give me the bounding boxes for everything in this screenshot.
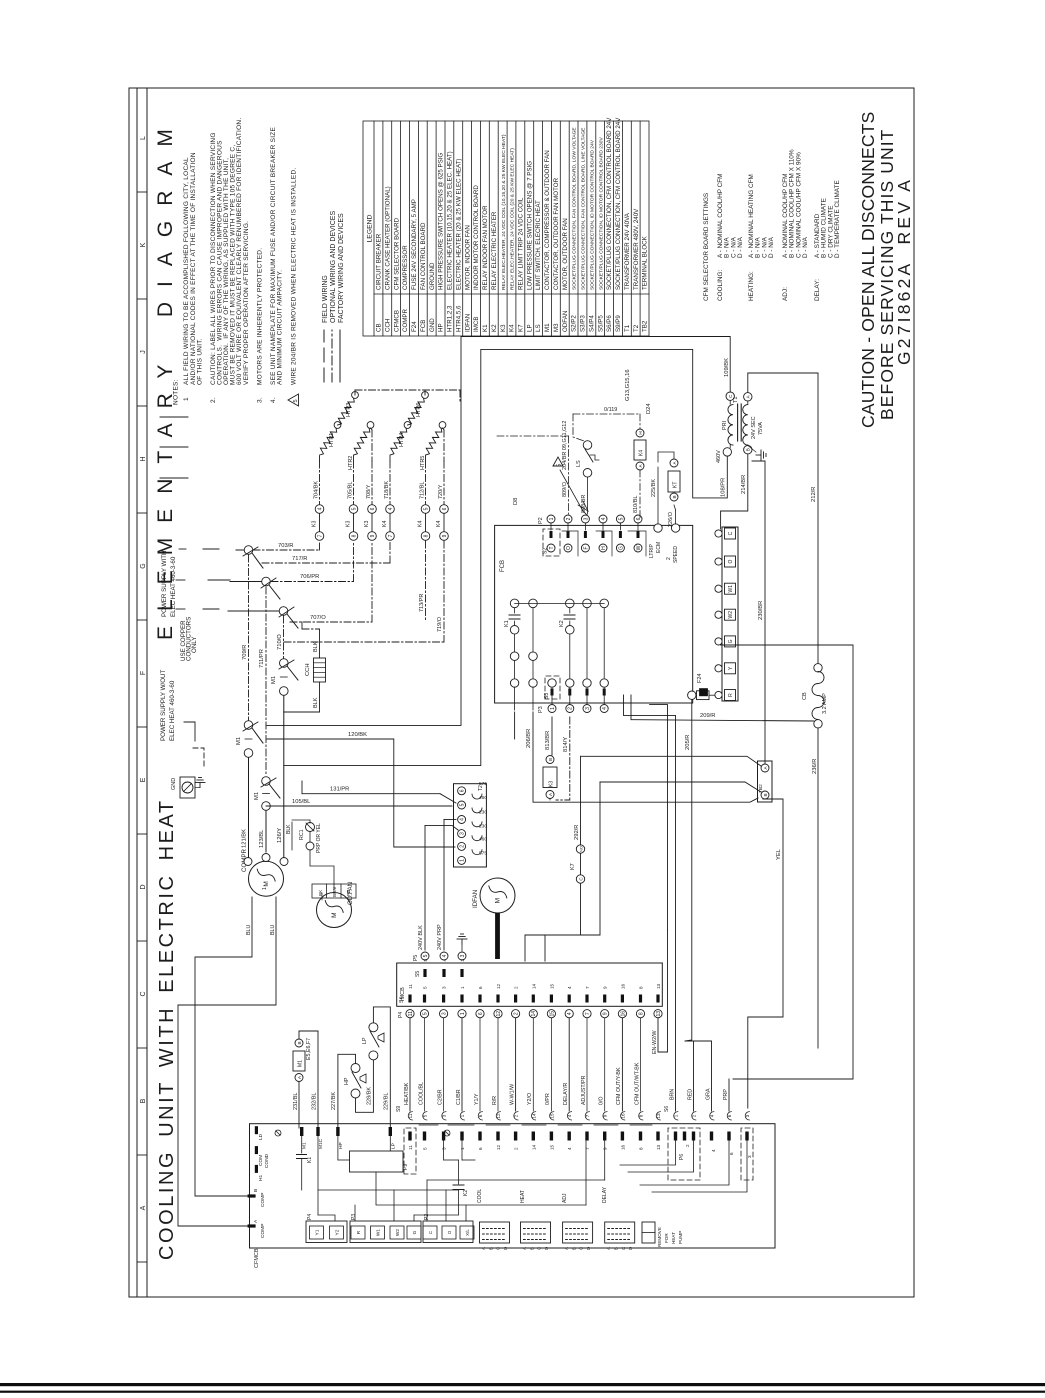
relay contact K4 pins 6/9: [440, 505, 449, 514]
svg-text:6: 6: [478, 1012, 484, 1015]
svg-text:RC1: RC1: [299, 829, 305, 840]
svg-text:SOCKET/PLUG CONNECTION, FAN CO: SOCKET/PLUG CONNECTION, FAN CONTROL BOAR…: [581, 127, 587, 290]
svg-text:K3: K3: [549, 781, 555, 787]
svg-text:CFM SELECTOR BOARD SETTINGS: CFM SELECTOR BOARD SETTINGS: [703, 193, 710, 301]
svg-text:F24: F24: [411, 321, 418, 332]
svg-text:D8: D8: [513, 498, 519, 505]
svg-text:228/BK: 228/BK: [367, 1087, 373, 1105]
svg-text:COMPRESSOR: COMPRESSOR: [402, 245, 409, 290]
svg-text:S5: S5: [415, 971, 421, 977]
page footer rules: [0, 1383, 1045, 1393]
svg-text:B: B: [614, 1247, 619, 1250]
svg-text:9: 9: [603, 1147, 608, 1150]
svg-text:4: 4: [442, 959, 447, 962]
crank case heater CCH: [301, 622, 303, 629]
svg-text:SOCKET/PLUG CONNECTION, FAN CO: SOCKET/PLUG CONNECTION, FAN CONTROL BOAR…: [572, 127, 578, 290]
heater branch tie wires: [319, 456, 321, 461]
svg-text:292/R: 292/R: [574, 825, 580, 840]
svg-text:T2: T2: [633, 324, 640, 332]
svg-text:CRANK CASE HEATER (OPTIONAL): CRANK CASE HEATER (OPTIONAL): [384, 186, 391, 290]
svg-text:4: 4: [317, 507, 323, 510]
svg-text:K4: K4: [436, 521, 442, 527]
svg-text:K3: K3: [364, 521, 370, 527]
svg-text:MOTORS ARE INHERENTLY PROTECTE: MOTORS ARE INHERENTLY PROTECTED.: [256, 248, 263, 385]
wire 703/R: [253, 549, 320, 551]
svg-text:204/BR 09,G11,G12: 204/BR 09,G11,G12: [562, 421, 568, 470]
bracket lines S9 row: [419, 1124, 438, 1126]
wire 229/BL: [373, 1007, 390, 1128]
svg-text:710/O: 710/O: [277, 634, 283, 650]
ground at P5 pin 3: [461, 944, 463, 951]
svg-text:K1: K1: [482, 324, 489, 332]
svg-text:460V: 460V: [716, 450, 722, 463]
CFMCB internal wiring: [318, 1189, 458, 1191]
svg-text:4: 4: [442, 954, 448, 957]
svg-text:L: L: [140, 136, 147, 140]
svg-text:Y1: Y1: [315, 1229, 321, 1235]
svg-text:15: 15: [549, 1011, 555, 1017]
terminal O: [725, 556, 736, 567]
svg-text:CCH: CCH: [384, 319, 391, 332]
svg-text:HEAT: HEAT: [671, 1232, 676, 1244]
svg-text:236/R: 236/R: [812, 759, 818, 774]
svg-text:COOL: COOL: [477, 1189, 483, 1203]
legend table: [363, 121, 649, 336]
svg-text:4: 4: [460, 818, 466, 821]
svg-text:Y2: Y2: [335, 1229, 341, 1235]
svg-text:8: 8: [639, 986, 644, 989]
svg-text:R/R: R/R: [492, 1096, 498, 1105]
terminal group P3 (R W1 W2 G): [350, 1221, 421, 1243]
svg-text:CFMCB: CFMCB: [393, 310, 400, 332]
svg-text:P6: P6: [679, 1154, 685, 1160]
wire RED: [693, 1041, 695, 1111]
svg-text:AND MINIMUM CIRCUIT AMPACITY.: AND MINIMUM CIRCUIT AMPACITY.: [277, 270, 284, 385]
svg-text:9: 9: [370, 534, 376, 537]
svg-text:1: 1: [460, 986, 465, 989]
motor IDFAN: [480, 878, 515, 913]
svg-text:TB2: TB2: [642, 320, 649, 332]
svg-text:1: 1: [460, 859, 466, 862]
svg-text:Y2/O: Y2/O: [527, 1093, 533, 1105]
relay contact K3 pins 5/8: [349, 505, 358, 514]
wire 105/BL: [266, 805, 452, 807]
svg-text:4: 4: [711, 1149, 716, 1152]
relay contact K1: [510, 599, 519, 608]
svg-text:ADJ: ADJ: [562, 1193, 568, 1203]
svg-text:YEL: YEL: [776, 848, 782, 860]
svg-text:S9/P9: S9/P9: [615, 315, 622, 332]
svg-text:A: A: [522, 1247, 527, 1250]
terminal 460V: [723, 448, 731, 456]
FCB fan control board: [495, 525, 693, 703]
svg-text:6: 6: [636, 517, 642, 520]
svg-text:J: J: [140, 350, 147, 354]
svg-text:IMCB: IMCB: [473, 317, 480, 332]
svg-text:K1: K1: [504, 620, 510, 627]
svg-text:206/BR: 206/BR: [526, 729, 532, 748]
svg-text:121/BK: 121/BK: [242, 829, 248, 848]
svg-text:GROUND: GROUND: [429, 262, 436, 290]
svg-text:P5: P5: [413, 955, 419, 961]
svg-text:131/PR: 131/PR: [330, 787, 349, 793]
svg-text:SOCKET/PLUG CONNECTION, CFM CO: SOCKET/PLUG CONNECTION, CFM CONTROL BOAR…: [606, 117, 613, 290]
svg-text:HEATING:: HEATING:: [748, 271, 755, 301]
disconnect switch pole 2: [262, 577, 271, 586]
CFM selector board settings text: [703, 149, 841, 301]
svg-text:K4: K4: [509, 324, 516, 332]
wire 720/Y: [443, 461, 445, 504]
svg-text:M1: M1: [236, 737, 242, 745]
contactor M1 contact A: [244, 721, 253, 730]
relay contact K7: [576, 845, 584, 853]
wire 209/R: [631, 695, 814, 721]
terminal G: [725, 636, 736, 647]
svg-text:ADJ:: ADJ:: [782, 287, 789, 301]
svg-text:F: F: [140, 671, 147, 675]
wire 205/R: [685, 700, 692, 1042]
svg-text:BLK: BLK: [286, 824, 292, 834]
wire 227/BK: [338, 1054, 356, 1128]
svg-text:LOW PRESSURE SWITCH OPENS @ 7: LOW PRESSURE SWITCH OPENS @ 7 PSIG: [526, 161, 533, 290]
svg-text:S4/P4: S4/P4: [589, 315, 596, 332]
svg-text:LEGEND: LEGEND: [367, 214, 374, 242]
circuit breaker CB 3.2 AMP: [814, 664, 822, 672]
svg-text:FCB: FCB: [500, 560, 506, 572]
svg-text:COMP: COMP: [260, 1224, 266, 1238]
svg-text:2: 2: [566, 517, 572, 520]
wire 712/BL: [425, 461, 427, 504]
svg-text:2: 2: [685, 1144, 690, 1147]
svg-text:HEAT: HEAT: [520, 1190, 526, 1203]
wire 717/R: [262, 562, 390, 564]
svg-text:HP: HP: [344, 1077, 350, 1085]
svg-text:CAUTION - OPEN ALL DISCONNECTS: CAUTION - OPEN ALL DISCONNECTS: [858, 111, 878, 428]
svg-text:813/BR: 813/BR: [545, 731, 551, 750]
svg-text:HTR4,5,6: HTR4,5,6: [455, 305, 462, 332]
svg-text:K4: K4: [639, 450, 645, 456]
motor ODFAN: [317, 893, 352, 928]
svg-text:C2/BR: C2/BR: [437, 1089, 443, 1105]
IMCB indoor motor control board: [397, 963, 663, 1006]
svg-text:BRN: BRN: [670, 1089, 676, 1100]
svg-text:226/O: 226/O: [668, 511, 674, 527]
lower heater bus 719/O: [443, 541, 445, 642]
svg-text:RELAY ELEC.HEATER, 24 VDC COIL: RELAY ELEC.HEATER, 24 VDC COIL (10,15,20…: [501, 134, 507, 290]
svg-text:212/R: 212/R: [811, 487, 817, 502]
svg-text:240V PRP: 240V PRP: [437, 924, 443, 950]
pressure switch HP: [351, 1064, 360, 1073]
svg-text:11: 11: [408, 1145, 413, 1150]
svg-text:W: W: [636, 545, 642, 550]
svg-text:O: O: [566, 546, 572, 550]
svg-text:16: 16: [620, 1113, 625, 1119]
svg-text:M1C: M1C: [318, 1138, 324, 1149]
svg-text:12: 12: [496, 1144, 501, 1150]
relay K1 symbol: [301, 1136, 303, 1153]
svg-text:7: 7: [585, 986, 590, 989]
svg-text:12: 12: [496, 983, 501, 989]
svg-text:POWER SUPPLY WITH: POWER SUPPLY WITH: [161, 551, 168, 617]
svg-text:1: 1: [549, 517, 555, 520]
terminal W1: [725, 583, 736, 594]
svg-text:M1: M1: [302, 1142, 308, 1149]
wire 131/PR: [302, 793, 440, 795]
wire 226/O: [675, 510, 677, 524]
svg-text:PR: PR: [346, 889, 351, 896]
svg-text:COOLING UNIT WITH ELECTRIC HEA: COOLING UNIT WITH ELECTRIC HEAT: [156, 798, 178, 1260]
heater elements HTR1-6: [320, 428, 337, 455]
svg-text:109/BK: 109/BK: [724, 358, 730, 377]
svg-text:BLU: BLU: [246, 925, 252, 935]
wire 708/Y: [371, 461, 373, 504]
svg-text:M1: M1: [254, 792, 260, 800]
svg-text:EN-W2/W: EN-W2/W: [652, 1030, 658, 1054]
svg-text:707/O: 707/O: [310, 615, 326, 621]
svg-text:S3: S3: [544, 693, 550, 699]
svg-text:HP: HP: [438, 323, 445, 332]
contactor M1 contact B: [262, 777, 271, 786]
svg-text:HEAT/BK: HEAT/BK: [404, 1082, 410, 1105]
wire 0/119: [573, 414, 584, 441]
svg-text:4: 4: [567, 1012, 573, 1015]
svg-text:16: 16: [620, 983, 625, 989]
LTRIP ECM pin: [654, 524, 662, 532]
svg-text:ELECTRIC HEATER (20 & 25 KW EL: ELECTRIC HEATER (20 & 25 KW ELEC HEAT): [455, 159, 462, 290]
svg-text:230: 230: [479, 810, 487, 816]
svg-text:3: 3: [442, 1012, 448, 1015]
svg-text:1: 1: [460, 1114, 465, 1117]
svg-text:8: 8: [639, 1114, 644, 1117]
svg-text:T1: T1: [624, 324, 631, 332]
remove for heat pump jumper: [642, 1222, 655, 1243]
svg-text:1: 1: [460, 1012, 466, 1015]
svg-text:2: 2: [568, 707, 574, 710]
svg-text:11: 11: [408, 1113, 413, 1118]
svg-text:2: 2: [514, 1012, 520, 1015]
svg-text:229/BL: 229/BL: [384, 1093, 390, 1110]
svg-text:6: 6: [478, 1147, 483, 1150]
svg-text:OPTIONAL WIRING AND DEVICES: OPTIONAL WIRING AND DEVICES: [330, 211, 337, 323]
svg-text:C: C: [428, 1230, 433, 1234]
svg-text:HP: HP: [338, 1142, 344, 1149]
K7 C wire: [525, 884, 581, 962]
svg-text:4: 4: [602, 707, 608, 710]
svg-text:12: 12: [496, 1011, 502, 1017]
svg-text:W2: W2: [395, 1229, 401, 1237]
wire YEL: [748, 799, 783, 1108]
svg-text:OF THIS UNIT.: OF THIS UNIT.: [196, 338, 203, 385]
svg-text:KT: KT: [673, 482, 679, 488]
FCB columns 4,5: [583, 599, 592, 608]
svg-text:ECM: ECM: [656, 542, 662, 553]
capacitor RC1: [306, 823, 315, 832]
svg-text:ELEC HEAT 460-3-60: ELEC HEAT 460-3-60: [170, 556, 177, 617]
svg-text:232/BL: 232/BL: [312, 1093, 318, 1110]
COMP B pin: [248, 1194, 256, 1197]
zone letters: [140, 136, 147, 1210]
svg-text:RELAY ELEC.HEATER, 24 VDC COIL: RELAY ELEC.HEATER, 24 VDC COIL (20 & 25 …: [510, 148, 516, 290]
svg-text:P3: P3: [351, 1214, 357, 1220]
svg-text:HTR3: HTR3: [346, 403, 352, 417]
svg-text:D - N/A: D - N/A: [737, 236, 744, 258]
svg-text:E: E: [140, 777, 147, 782]
svg-text:TERMINAL BLOCK: TERMINAL BLOCK: [642, 235, 649, 290]
svg-text:M: M: [263, 881, 270, 886]
svg-text:713/PR: 713/PR: [419, 594, 425, 612]
svg-text:15: 15: [549, 1144, 554, 1150]
relay contact K2: [566, 599, 575, 608]
svg-text:B: B: [140, 1098, 147, 1103]
svg-text:M1: M1: [271, 676, 277, 684]
relay contact K4 pins 4/7: [386, 505, 395, 514]
svg-text:HTR6: HTR6: [416, 403, 422, 417]
P4-S9 harness wires: [409, 1018, 411, 1111]
svg-text:14: 14: [531, 1113, 536, 1119]
DIP switch blocks: [480, 1222, 510, 1243]
svg-text:F24: F24: [697, 674, 703, 683]
svg-text:3: 3: [460, 954, 466, 957]
svg-text:CFM OUT/Y-BK: CFM OUT/Y-BK: [616, 1067, 622, 1105]
svg-text:CCH: CCH: [305, 663, 311, 676]
svg-text:LP: LP: [526, 324, 533, 332]
svg-text:M1: M1: [544, 323, 551, 332]
svg-text:S3/P3: S3/P3: [580, 315, 587, 332]
svg-text:K7: K7: [570, 863, 576, 870]
svg-text:FCB: FCB: [420, 320, 427, 332]
svg-text:15: 15: [549, 983, 554, 989]
terminal R: [725, 690, 736, 701]
svg-text:HTR1,2,3: HTR1,2,3: [447, 305, 454, 332]
svg-text:8: 8: [639, 1147, 644, 1150]
svg-text:1: 1: [262, 887, 268, 890]
svg-text:C: C: [496, 1247, 501, 1250]
svg-text:K2: K2: [559, 620, 565, 627]
svg-text:0/O: 0/O: [599, 1096, 605, 1105]
svg-text:D: D: [503, 1247, 508, 1250]
svg-text:A: A: [606, 1247, 611, 1250]
svg-text:ADJUST/PR: ADJUST/PR: [581, 1075, 587, 1105]
svg-text:LS: LS: [535, 324, 542, 332]
svg-text:NOTES:: NOTES:: [173, 379, 180, 405]
svg-text:2: 2: [514, 1114, 519, 1117]
field wiring stubs: [160, 416, 188, 418]
svg-text:TRANSFORMER 24V 40VA: TRANSFORMER 24V 40VA: [624, 212, 631, 290]
svg-text:PRP: PRP: [723, 1089, 729, 1100]
svg-text:ODFAN: ODFAN: [562, 311, 569, 332]
svg-text:CB: CB: [376, 323, 383, 332]
svg-text:718/BK: 718/BK: [384, 481, 390, 499]
M1 coil assembly: [295, 1039, 303, 1047]
svg-text:D: D: [628, 1247, 633, 1250]
svg-text:BLU: BLU: [270, 925, 276, 935]
svg-text:B: B: [529, 1247, 534, 1250]
svg-text:H1: H1: [258, 1175, 264, 1181]
svg-text:2: 2: [514, 1147, 519, 1150]
svg-text:W2: W2: [728, 611, 734, 619]
svg-text:F: F: [583, 546, 589, 549]
wire 810/BL: [639, 470, 641, 519]
svg-text:G27I862A REV A: G27I862A REV A: [894, 177, 914, 365]
svg-text:9: 9: [603, 1114, 608, 1117]
relay contact K3 pins 6/9: [368, 505, 377, 514]
svg-text:TRANSFORMER 480V, 240V: TRANSFORMER 480V, 240V: [633, 208, 640, 290]
svg-text:DELAY: DELAY: [602, 1186, 608, 1203]
connector S3/P3: [510, 679, 518, 687]
svg-text:2: 2: [666, 557, 672, 560]
svg-text:809/O: 809/O: [562, 481, 568, 497]
svg-text:1: 1: [674, 1114, 679, 1117]
svg-text:712/BL: 712/BL: [420, 482, 426, 499]
wire 704/BK: [319, 461, 321, 504]
svg-text:H: H: [601, 546, 607, 550]
wire 707/O: [290, 621, 372, 623]
svg-text:P3: P3: [538, 706, 544, 713]
svg-text:209/R: 209/R: [700, 713, 715, 719]
svg-text:3: 3: [442, 1114, 447, 1117]
svg-text:16: 16: [620, 1144, 625, 1150]
svg-text:RED: RED: [688, 1089, 694, 1100]
wire to 460V primary (108/PR path): [284, 349, 728, 765]
wire 109/BK path: [267, 337, 730, 726]
svg-text:A: A: [253, 1219, 259, 1223]
svg-text:3: 3: [442, 1147, 447, 1150]
svg-text:2: 2: [514, 986, 519, 989]
svg-text:M: M: [495, 898, 502, 903]
svg-text:COMP: COMP: [260, 1193, 266, 1207]
svg-text:P4: P4: [398, 1012, 404, 1018]
svg-text:SOCKET/PLUG CONNECTION, CFM CO: SOCKET/PLUG CONNECTION, CFM CONTROL BOAR…: [615, 117, 622, 290]
svg-text:W1: W1: [376, 1229, 382, 1237]
svg-text:SOCKET/PLUG CONNECTION, ID MOT: SOCKET/PLUG CONNECTION, ID MOTOR CONTROL…: [598, 137, 604, 290]
wire 214/BR: [721, 454, 748, 529]
svg-text:BLK: BLK: [313, 641, 319, 652]
CFMCB cfm selector board: [250, 1124, 776, 1248]
svg-text:14: 14: [531, 983, 536, 989]
svg-text:C: C: [728, 531, 734, 535]
svg-text:NO: NO: [578, 846, 583, 852]
svg-text:T: T: [549, 546, 555, 549]
limit switch LS: [583, 441, 592, 450]
svg-text:BLK: BLK: [313, 697, 319, 708]
svg-text:G: G: [728, 639, 734, 643]
fuse F24: [688, 691, 696, 699]
svg-text:WIRE 204/BR IS REMOVED WHEN EL: WIRE 204/BR IS REMOVED WHEN ELECTRIC HEA…: [291, 168, 298, 385]
svg-text:709/R: 709/R: [242, 645, 248, 660]
wire 228/BK: [356, 1060, 374, 1112]
wire G to PRP riser: [721, 645, 853, 1079]
svg-text:CB: CB: [802, 692, 808, 700]
svg-text:Y1/Y: Y1/Y: [474, 1093, 480, 1105]
svg-text:3: 3: [460, 832, 466, 835]
svg-text:H: H: [638, 431, 643, 434]
svg-text:214/BR: 214/BR: [741, 475, 747, 494]
svg-text:C: C: [140, 991, 147, 996]
svg-text:808/BR: 808/BR: [581, 495, 587, 513]
M1 M1C HP LP input pins: [300, 1127, 303, 1136]
svg-text:0/PR: 0/PR: [545, 1093, 551, 1105]
svg-text:A: A: [481, 1247, 486, 1250]
svg-text:DELAY:: DELAY:: [814, 279, 821, 301]
wire 240V PRP: [444, 819, 456, 821]
svg-text:S6: S6: [664, 1106, 670, 1112]
svg-text:3: 3: [460, 959, 465, 962]
svg-text:Y: Y: [728, 666, 734, 670]
svg-text:126/Y: 126/Y: [277, 828, 283, 843]
svg-text:FAN CONTROL BOARD: FAN CONTROL BOARD: [420, 222, 427, 290]
ground lug GND: [180, 777, 195, 798]
svg-text:S4: S4: [399, 997, 405, 1003]
